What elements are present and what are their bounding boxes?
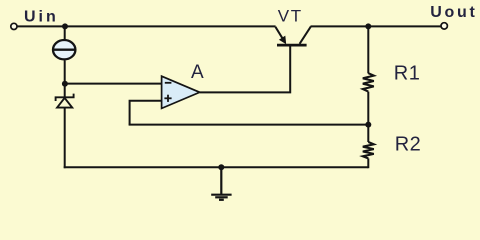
svg-text:R1: R1 (394, 62, 421, 84)
node junction zener / op-amp inverting input (62, 81, 68, 87)
svg-text:A: A (191, 62, 204, 83)
wire op-amp noninverting input (130, 101, 162, 125)
wire feedback from divider to op-amp (129, 124, 369, 126)
current source I1 (53, 40, 75, 59)
wire R1 to divider node (367, 92, 369, 125)
pin label plus (164, 95, 171, 102)
ground (211, 195, 231, 200)
transistor VT (275, 27, 310, 45)
node junction divider R1/R2 (365, 122, 371, 128)
node junction output / R1 (365, 23, 371, 29)
wire top rail left (Uin to VT emitter) (17, 25, 275, 27)
svg-text:VT: VT (278, 7, 303, 26)
svg-text:R2: R2 (395, 133, 422, 155)
op-amp A (162, 76, 200, 108)
wire R2 to bottom rail (367, 158, 369, 168)
resistor R1 (363, 73, 374, 91)
wire bottom ground rail (64, 166, 369, 168)
node junction ground tap (218, 164, 224, 170)
terminal Uout (441, 23, 447, 29)
svg-text:Uout: Uout (430, 4, 477, 21)
zener diode VD1 (56, 94, 74, 108)
pin label minus (165, 82, 172, 84)
wire zener to bottom rail (64, 108, 66, 169)
wire op-amp output to transistor base (200, 46, 291, 92)
wire top rail right (VT collector to Uout) (311, 25, 442, 27)
svg-text:Uin: Uin (24, 9, 59, 26)
wire ground lead (220, 167, 222, 194)
wire junction down to current source (64, 26, 66, 40)
wire to op-amp inverting input (65, 83, 162, 85)
wire divider node to R2 (367, 125, 369, 142)
terminal Uin (11, 23, 17, 29)
wire current source to zener node (64, 60, 66, 96)
resistor R2 (363, 142, 374, 158)
wire output rail down to R1 (367, 26, 369, 73)
node junction Uin / current source (62, 23, 68, 29)
